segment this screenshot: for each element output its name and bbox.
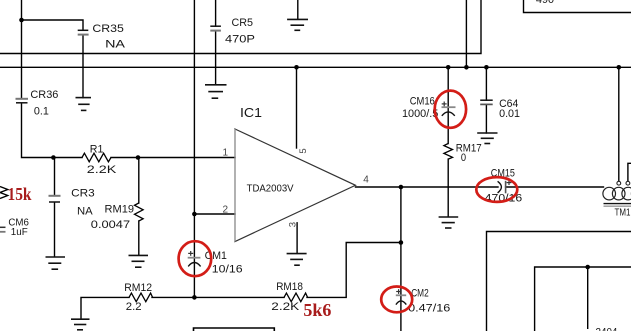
wire transformer left terminal up to bus [618, 67, 620, 181]
wire feedback elbow [307, 243, 401, 298]
wire R1 right to IC pin1 [111, 157, 235, 159]
ground RM19 [129, 255, 149, 267]
resistor RM17 [444, 144, 453, 160]
svg-text:2.2: 2.2 [126, 301, 142, 313]
wire horizontal bus lower [0, 66, 631, 68]
wire pin2 stub [194, 213, 235, 215]
node output [399, 185, 404, 190]
svg-text:2404: 2404 [596, 326, 618, 331]
wire horizontal bus upper [0, 0, 481, 54]
wire top-right box corner [524, 0, 631, 13]
capacitor CM6 partial at left edge [0, 217, 29, 238]
ground RM17 [439, 217, 459, 228]
svg-text:RM18: RM18 [276, 281, 303, 293]
svg-text:0.0047: 0.0047 [91, 219, 130, 231]
ground CR5 [205, 85, 227, 98]
ground C64 [477, 133, 497, 144]
wire CR5 to ground [215, 31, 217, 85]
wire output pin4 to CM15 [356, 186, 499, 188]
svg-text:1000/.5: 1000/.5 [402, 108, 438, 120]
wire RM19 bottom to ground [138, 221, 140, 255]
resistor RM19 [135, 203, 144, 221]
wire CR35 to ground [82, 35, 84, 97]
wire top-right vertical 1 [465, 0, 467, 67]
svg-text:2: 2 [223, 205, 229, 216]
capacitor CM2 polarized [396, 287, 451, 314]
capacitor CM1 polarized [188, 250, 243, 276]
svg-text:0.47/16: 0.47/16 [408, 303, 450, 315]
svg-text:1: 1 [223, 148, 229, 159]
wire bottom-right inner box [535, 267, 631, 331]
svg-text:5: 5 [298, 148, 309, 153]
wire CM16/RM17 branch [447, 67, 449, 143]
ground bottom left [71, 319, 90, 330]
svg-text:2.2K: 2.2K [271, 301, 300, 313]
wire RM18 to RM12 [152, 296, 284, 298]
box bottom center [194, 328, 275, 331]
resistor R1 [82, 153, 111, 162]
capacitor CM16 polarized [402, 96, 456, 120]
resistor RM16 partial at left edge [0, 187, 8, 199]
svg-text:RM19: RM19 [105, 204, 135, 216]
svg-text:CR35: CR35 [92, 23, 124, 35]
node R1 right [136, 155, 141, 160]
svg-text:CR36: CR36 [30, 89, 58, 101]
wire bottom-right component lead [587, 267, 589, 328]
svg-text:0.01: 0.01 [499, 108, 520, 120]
svg-text:RM17: RM17 [456, 143, 482, 155]
node inner box [585, 265, 590, 270]
node feedback [399, 240, 404, 245]
wire CR36 bottom to R1 row [22, 104, 83, 158]
wire top ground stub [297, 0, 299, 19]
wire CR3 to ground [54, 203, 56, 257]
node CM16 bus [446, 65, 451, 70]
annotation circle CM1 [179, 241, 212, 276]
wire CR5 top [215, 0, 217, 26]
ground pin3 [287, 254, 307, 266]
wire pin5 vertical [296, 67, 298, 148]
wire output branch down to CM2 [400, 187, 402, 331]
node C64 bus [484, 65, 489, 70]
svg-text:IC1: IC1 [240, 106, 262, 120]
svg-text:3: 3 [287, 222, 298, 227]
svg-text:0: 0 [461, 152, 466, 164]
svg-text:5k6: 5k6 [303, 300, 331, 320]
svg-text:RM12: RM12 [124, 282, 152, 294]
capacitor CR36 [16, 89, 59, 117]
node pin5 bus [294, 65, 299, 70]
wire C64 to ground [485, 105, 487, 133]
wire C64 branch [485, 67, 487, 100]
wire CM15 to transformer [506, 186, 604, 188]
capacitor C64 [480, 98, 520, 120]
wire CR35 branch [22, 20, 84, 30]
ground CR35 [76, 98, 92, 111]
svg-text:2.2K: 2.2K [87, 164, 117, 176]
ground CR3 [46, 257, 66, 269]
annotation circle CM2 [381, 287, 412, 313]
svg-text:CR3: CR3 [71, 188, 95, 200]
capacitor CM15 polarized horizontal [485, 168, 523, 205]
wire left vertical to CR36 [21, 0, 23, 98]
wire RM17 to ground [447, 159, 449, 217]
wire pin3 vertical [296, 223, 298, 254]
capacitor CR35 [78, 23, 126, 51]
annotation circle CM15 [476, 177, 517, 202]
svg-text:490: 490 [536, 0, 554, 6]
svg-text:TM1: TM1 [615, 208, 631, 219]
node pin2 [192, 212, 197, 217]
svg-text:CM1: CM1 [205, 250, 227, 262]
svg-text:470P: 470P [225, 33, 255, 45]
transformer TM1 [603, 181, 631, 218]
svg-text:4: 4 [363, 175, 369, 186]
ground top center [287, 19, 308, 30]
node CR35 tap [19, 18, 24, 23]
wire RM19 top [138, 158, 140, 204]
svg-text:CM16: CM16 [410, 96, 435, 108]
resistor RM12 [129, 293, 153, 302]
node CM1 bottom [192, 295, 197, 300]
wire CR3 branch [54, 158, 56, 196]
wire transformer right terminal up and out [628, 163, 631, 181]
svg-text:NA: NA [105, 39, 126, 51]
svg-text:15k: 15k [8, 184, 32, 204]
wire RM12 left corner down [81, 297, 129, 318]
svg-text:R1: R1 [90, 144, 104, 156]
svg-text:TDA2003V: TDA2003V [247, 182, 294, 194]
svg-text:NA: NA [77, 205, 93, 217]
svg-text:10/16: 10/16 [212, 263, 243, 275]
node TM1 bus [617, 65, 622, 70]
op-amp IC1 TDA2003V [223, 106, 370, 242]
svg-text:1uF: 1uF [11, 227, 28, 238]
svg-text:CM2: CM2 [411, 287, 429, 299]
node R1 left [51, 155, 56, 160]
capacitor CR5 [210, 17, 255, 45]
node mid bus [464, 65, 469, 70]
annotation circle CM16 [435, 91, 466, 128]
wire feedback vertical x194 [193, 0, 195, 297]
resistor RM18 [284, 293, 308, 302]
wire bottom-right outer box [487, 232, 631, 331]
svg-text:0.1: 0.1 [34, 105, 49, 117]
svg-text:CR5: CR5 [232, 17, 254, 29]
capacitor CR3 [49, 188, 95, 218]
